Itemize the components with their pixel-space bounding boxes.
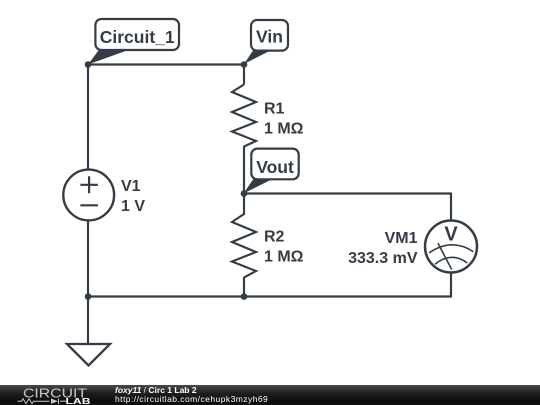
node Circuit_1 flag: [95, 19, 179, 50]
node Vout flag: [251, 149, 298, 180]
CircuitLab logo: [0, 385, 100, 405]
wire R1 bottom lead: [243, 146, 245, 195]
svg-text:333.3 mV: 333.3 mV: [348, 250, 418, 267]
wire left vertical upper (node to V1 top): [87, 64, 89, 171]
footer text line 1: [115, 386, 197, 395]
svg-text:1 V: 1 V: [121, 198, 145, 215]
junction dot at Vout node: [241, 190, 248, 197]
node Circuit_1 flag tail: [88, 51, 127, 65]
svg-text:Vout: Vout: [256, 157, 294, 177]
voltage source V1: [63, 170, 114, 221]
label VM1 value: [348, 230, 418, 267]
wire R2 top lead: [243, 194, 245, 215]
node Vin flag tail: [244, 51, 271, 65]
wire R2 bottom lead: [243, 277, 245, 298]
node Vout flag tail: [244, 180, 272, 194]
wire left vertical lower (V1 bottom to bottom rail): [87, 220, 89, 297]
junction dot at Circuit_1 node: [85, 61, 92, 68]
svg-text:Vin: Vin: [256, 27, 283, 47]
svg-text:VM1: VM1: [385, 230, 418, 247]
svg-text:R1: R1: [264, 100, 285, 117]
label V1 value: [121, 178, 145, 215]
wire R1 top lead: [243, 64, 245, 85]
label R2 value: [264, 229, 304, 266]
wire top horizontal (Circuit_1 node to Vin node): [88, 63, 244, 65]
label R1 value: [264, 100, 304, 137]
ground: [67, 344, 110, 366]
footer text line 2: [115, 395, 268, 404]
svg-text:1 MΩ: 1 MΩ: [264, 249, 304, 266]
svg-text:1 MΩ: 1 MΩ: [264, 120, 304, 137]
svg-text:R2: R2: [264, 229, 285, 246]
voltmeter VM1: [425, 221, 477, 273]
junction dot at R2 bottom node: [241, 293, 248, 300]
resistor R1: [232, 85, 256, 147]
wire Vout horizontal (Vout node to voltmeter): [244, 192, 451, 194]
wire VM1 top lead: [450, 193, 452, 222]
svg-text:V: V: [444, 224, 458, 246]
node Vin flag: [251, 20, 288, 51]
svg-text:LAB: LAB: [66, 396, 91, 405]
junction dot at bottom-left node: [85, 293, 92, 300]
svg-text:Circuit_1: Circuit_1: [100, 27, 175, 47]
footer bar: [0, 385, 540, 405]
wire VM1 bottom lead: [450, 272, 452, 298]
junction dot at Vin node: [241, 61, 248, 68]
wire bottom rail: [88, 295, 451, 297]
svg-text:V1: V1: [121, 178, 141, 195]
wire ground stem: [87, 297, 89, 345]
resistor R2: [232, 214, 256, 278]
